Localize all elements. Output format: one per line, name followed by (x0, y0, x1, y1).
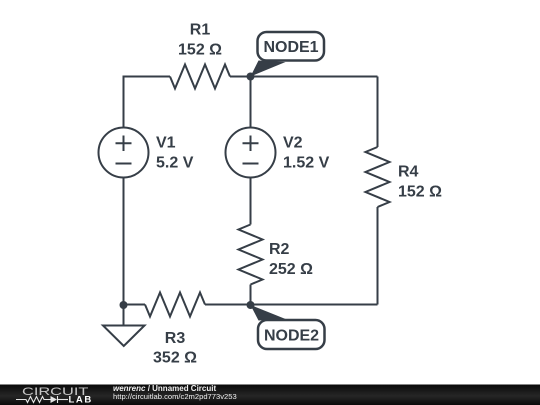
wire: V2 to R2 (250, 178, 252, 225)
wire: middle vertical from node1 to V2 (250, 77, 252, 128)
svg-text:R4: R4 (398, 164, 419, 181)
ground (123, 305, 125, 326)
svg-text:NODE1: NODE1 (263, 39, 318, 56)
wire: bottom run left segment (124, 304, 146, 306)
node A junction dot NODE1 (247, 73, 255, 81)
svg-text:252 Ω: 252 Ω (269, 261, 313, 278)
voltage source V1 (99, 128, 149, 178)
logo diode triangle (51, 396, 58, 403)
wire: right vertical lower (377, 207, 379, 305)
svg-text:http://circuitlab.com/c2m2pd77: http://circuitlab.com/c2m2pd773v253 (113, 392, 237, 401)
wire: bottom run right segment (205, 304, 378, 306)
logo wire squiggle with resistor and diode (16, 396, 68, 403)
footer bar (0, 385, 540, 405)
wire: R1 to node1 to top-right corner (230, 76, 378, 78)
svg-text:LAB: LAB (69, 395, 93, 405)
flag NODE1 box (258, 32, 325, 61)
flag NODE2 pointer (251, 305, 286, 321)
wire: top-left corner (left vertical upper + top run to R1) (124, 77, 171, 128)
svg-text:152 Ω: 152 Ω (178, 42, 222, 59)
svg-text:R1: R1 (190, 22, 211, 39)
svg-text:R3: R3 (165, 330, 186, 347)
node C junction dot ground (120, 301, 128, 309)
wire: right vertical upper (377, 77, 379, 148)
svg-text:152 Ω: 152 Ω (398, 184, 442, 201)
resistor R1 (170, 65, 230, 89)
svg-text:352 Ω: 352 Ω (153, 350, 197, 367)
voltage source V2 (226, 128, 276, 178)
node B junction dot NODE2 (247, 301, 255, 309)
wire: left vertical lower (123, 178, 125, 305)
svg-text:5.2 V: 5.2 V (156, 155, 194, 172)
wire: R2 to node2 (250, 285, 252, 305)
resistor R4 (366, 147, 390, 207)
svg-text:V1: V1 (156, 135, 176, 152)
resistor R2 (239, 225, 263, 285)
svg-text:1.52 V: 1.52 V (283, 155, 330, 172)
resistor R3 (145, 293, 205, 317)
svg-text:NODE2: NODE2 (264, 328, 319, 345)
svg-text:V2: V2 (283, 135, 303, 152)
svg-text:R2: R2 (269, 241, 290, 258)
flag NODE2 box (258, 320, 325, 349)
flag NODE1 pointer (251, 61, 286, 77)
